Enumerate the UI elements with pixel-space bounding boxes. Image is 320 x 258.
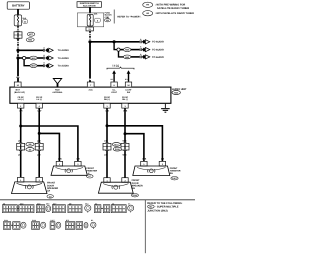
wire labels above LH door connectors [18,140,41,143]
pin 2 FR SP LH+ [18,103,24,108]
svg-text:SATELLITE RADIO TUNER: SATELLITE RADIO TUNER [157,7,189,10]
pin 8 ILL [111,82,117,87]
door harness connector RH- [121,143,129,152]
svg-text:7.5 [L]: 7.5 [L] [112,64,119,67]
door speaker LH pin 2 [36,177,42,182]
connector view M60 oval [46,206,51,212]
door harness connector RH+ [103,143,111,152]
svg-text:L/W: L/W [37,153,41,156]
separator line [0,199,195,201]
fuse block (J/B) [77,13,103,27]
svg-text:L/B: L/B [104,140,108,143]
node RH- tweeter branch [124,132,127,135]
audio unit id oval M43 [172,91,180,95]
connector view D7 round [128,205,134,212]
svg-text:DOOR: DOOR [132,182,139,185]
svg-text:FRONT: FRONT [47,182,56,185]
wire label L tick [89,79,92,81]
wire junction to BAT pin [17,58,19,82]
tweeter LH id oval D7 [87,175,94,179]
svg-text:- SUPER MULTIPLE: - SUPER MULTIPLE [155,206,178,209]
wire drop circle to row3R [119,51,124,57]
svg-text:RH: RH [170,172,174,175]
connector view B2 round [91,222,96,229]
svg-text:FRONT: FRONT [132,179,141,182]
node LH- tweeter branch [38,132,41,135]
note refer to power [113,10,115,24]
door speaker LH pin 1 [18,177,24,182]
svg-text:ACC OR ON: ACC OR ON [83,5,96,8]
svg-text:B2: B2 [91,219,93,222]
brace over ill arrows [107,67,134,69]
svg-text:L/B: L/B [104,153,108,156]
node RH+ tweeter branch [106,124,109,127]
svg-text:TO AUDIO: TO AUDIO [58,57,69,60]
fuse F2 10A [87,14,93,26]
wire between junctions [17,52,19,57]
tweeter LH wire labels [58,158,80,161]
fuse F1 number box [23,20,28,24]
wire FR SP LH+ down [20,108,22,178]
tweeter RH id oval D107 [171,177,178,181]
svg-text:TO AUDIO: TO AUDIO [58,49,69,52]
wire labels above RH door connectors [104,140,127,143]
node battery row1 junction [16,49,19,52]
connector circle row2R [117,48,120,51]
connector M1 id oval M32 [26,38,34,42]
connector view row1 labels [3,202,130,205]
svg-text:M60: M60 [46,202,49,205]
pin 4 FR SP LH- [36,103,42,108]
wire RH- branch to tweeter [125,134,144,162]
id oval on row3 M60b [30,64,37,68]
front door speaker LH body [12,182,48,194]
front door speaker LH label [47,182,58,193]
svg-text:BATTERY: BATTERY [12,5,25,8]
svg-text:W/B: W/B [123,153,128,156]
svg-text:SPEAKER: SPEAKER [47,187,58,190]
door speaker LH id oval D4 [47,195,53,199]
front tweeter LH body [51,166,87,175]
connector view D107 oval [56,222,61,228]
svg-text:IGNITION SWITCH: IGNITION SWITCH [80,2,99,5]
row2R arrow to audio [142,47,164,51]
connector view B75b grid [76,222,83,230]
front tweeter RH body [133,166,170,176]
svg-text:LH: LH [47,190,50,193]
connector view row2 labels [4,219,93,222]
up arrow LIGHT SW [125,70,131,81]
svg-text:L/W: L/W [58,158,62,161]
svg-text:D106: D106 [115,148,121,151]
wire junction to ACC pin [89,42,91,83]
connector view D106 oval [41,222,46,228]
row1 inline connector ticks [43,46,45,51]
wire row2 TO AUDIO (battery) [18,57,23,59]
svg-text:L/R: L/R [18,153,22,156]
door harness connector LH+ [17,143,25,152]
ignition switch box [77,2,101,8]
pin 3 FR SP RH- [122,103,128,108]
row3R arrow to audio [142,55,164,59]
wire row1 TO AUDIO (battery) [18,49,43,51]
fuse F1 15A [14,15,21,26]
fuse F2 number box [95,18,101,22]
svg-text:RH (-): RH (-) [122,98,128,101]
id oval row2R M60 [124,48,131,52]
audio unit pin name labels [14,89,132,102]
tweeter LH pin 2 [75,161,81,166]
svg-text:W/B: W/B [142,158,147,161]
door speaker RH pin 1 [104,178,110,183]
svg-text:(BACK UP): (BACK UP) [14,91,25,94]
door speaker RH pin 2 [122,178,128,183]
svg-text:LH (+): LH (+) [18,98,24,101]
id oval row3R M60 [124,55,131,59]
node ACC junction [88,40,91,43]
front door speaker RH body [98,182,133,193]
id oval on row2 M60 [30,56,37,60]
wire ign to fuse block [89,7,91,13]
wire label W/L tick [17,76,20,78]
connector view D104b grid [13,222,20,230]
svg-text:L/R: L/R [18,140,22,143]
svg-text:TO AUDIO: TO AUDIO [58,65,69,68]
connector view B75 oval [84,222,88,228]
wire drop to row2R [114,42,117,50]
wire FR SP LH- down [38,108,40,178]
svg-text:DOOR: DOOR [47,184,54,187]
legend oval PR with pre-wiring [143,2,190,10]
svg-text:JUNCTION (SMJ): JUNCTION (SMJ) [147,210,167,213]
connector view D6 grid [111,205,126,213]
ground at audio unit [161,103,170,112]
front door speaker RH label [132,179,143,190]
id oval D6 LH [26,148,34,152]
connector view B75a grid [65,222,74,230]
pin 7 ACC [87,82,94,87]
id oval M9 LH [26,142,34,146]
antenna symbol [53,79,61,88]
connector view M1 grid [2,205,17,213]
connector view M77 grid [52,205,65,213]
fuse block id oval M4 [105,19,111,23]
wire LH- branch to tweeter [39,133,59,161]
connector view M43 grid [36,205,45,213]
connector view D104a grid [3,222,10,230]
connector view M10 round [85,205,91,213]
fuse block output pin 21 [86,26,93,31]
svg-text:RH (+): RH (+) [104,98,110,101]
row3R inline connector ticks [140,53,142,58]
wire fuse to connector M1 (dash-dot) [17,26,19,32]
svg-text:REFER TO “POWER”.: REFER TO “POWER”. [117,15,141,18]
wire row1 TO AUDIO (acc) [90,41,140,43]
svg-text:L/R: L/R [76,158,80,161]
wire drop circle to row3 [24,60,30,66]
link [17,207,18,209]
svg-text:RH: RH [132,187,136,190]
svg-text:CONT: CONT [111,91,118,94]
connector circle row2 [23,56,26,59]
link [11,224,13,226]
svg-text:ANTENNA: ANTENNA [52,91,63,94]
id oval M10 RH [112,143,120,147]
fuse block label [105,12,113,19]
svg-text:D7: D7 [128,202,130,205]
row3 arrow to audio [45,64,69,68]
svg-text:R/L: R/L [111,78,114,81]
svg-text:: WITH SATELLITE RADIO TUNER: : WITH SATELLITE RADIO TUNER [155,12,194,15]
svg-text:ACC: ACC [88,89,93,92]
pin 10 BAT [14,82,21,87]
wire FR SP RH- down [124,108,126,178]
legend oval SR with satellite radio tuner [143,11,194,16]
svg-text:REFER TO THE FOLLOWING:: REFER TO THE FOLLOWING: [147,202,182,205]
tweeter RH wire labels [142,158,164,161]
door harness connector LH- [35,143,43,152]
connector view D4a grid [94,205,101,213]
svg-text:TO AUDIO: TO AUDIO [152,56,164,59]
wire color labels under unit [19,109,127,112]
svg-text:TO AUDIO: TO AUDIO [152,49,164,52]
row2R inline connector ticks [140,46,142,51]
wire FR SP RH+ down [106,108,108,178]
node battery row2 junction [16,56,19,59]
wire RH+ branch to tweeter [107,126,162,162]
link [101,207,103,209]
row2 arrow to audio [45,56,69,60]
connector view M9 grid [68,205,82,213]
front tweeter LH label [86,167,97,175]
svg-text:10A: 10A [94,12,98,15]
connector view M30 grid [19,205,34,213]
tweeter LH pin 1 [56,161,62,166]
svg-text:SW: SW [127,91,130,94]
wire battery to fuse [17,9,19,15]
svg-text:L/B: L/B [161,158,165,161]
wire labels below LH door connectors [18,153,41,156]
pin 16 LIGHT SW [125,82,131,87]
row1 arrow to audio [45,48,69,52]
row1R inline connector ticks [140,38,142,43]
row2 inline connector ticks [43,54,45,59]
battery B1 [7,2,29,9]
svg-text:TO AUDIO: TO AUDIO [152,41,164,44]
tweeter RH pin 2 [159,161,165,166]
wire connector to junction (dash-dot) [17,39,19,49]
tweeter RH pin 1 [141,161,147,166]
id oval D106 RH [113,147,121,151]
svg-text:D107: D107 [172,177,177,180]
up arrow ILL CONT [111,70,116,81]
front tweeter RH label [170,167,181,175]
row1R arrow to audio [142,40,164,44]
pin 1 FR SP RH+ [104,103,110,108]
node LH+ tweeter branch [19,125,22,128]
node acc row junction [113,40,116,43]
connector M1 pass-through [14,31,22,39]
note box refer to following [145,200,182,253]
svg-text:SPEAKER: SPEAKER [132,185,143,188]
wire fuse block to junction (dash-dot) [89,31,91,41]
svg-text:W/B: W/B [123,140,128,143]
connector view D4b grid [103,205,110,213]
svg-text:D7: D7 [89,175,91,178]
svg-text:L/W: L/W [37,140,41,143]
connector view D106 grid [32,222,40,230]
door speaker RH id oval D104 [131,194,138,198]
connector M1 id oval M77 [27,32,34,36]
wire LH+ branch to tweeter [21,126,78,161]
connector view D104 oval [21,222,26,228]
svg-text:LH (-): LH (-) [37,98,43,101]
connector view D107 box [50,222,55,230]
audio unit box [10,87,171,103]
wire labels below RH door connectors [104,153,127,156]
row3 inline connector ticks [43,62,45,67]
